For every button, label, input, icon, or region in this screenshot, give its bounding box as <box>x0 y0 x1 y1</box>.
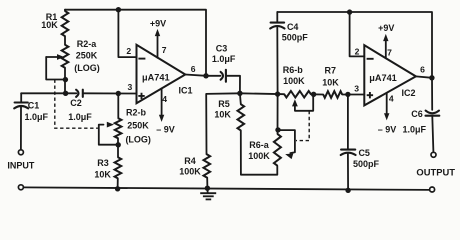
svg-text:500pF: 500pF <box>353 159 380 169</box>
svg-text:1.0μF: 1.0μF <box>25 112 49 122</box>
svg-text:– 9V: – 9V <box>156 124 175 134</box>
svg-text:10K: 10K <box>94 169 111 179</box>
svg-text:4: 4 <box>162 94 167 104</box>
svg-text:IC2: IC2 <box>401 88 415 98</box>
svg-text:C4: C4 <box>287 22 299 32</box>
svg-text:R6-a: R6-a <box>249 140 270 150</box>
svg-text:500pF: 500pF <box>282 32 309 42</box>
svg-text:1.0μF: 1.0μF <box>402 124 426 134</box>
svg-text:7: 7 <box>162 45 167 55</box>
svg-text:4: 4 <box>389 94 394 104</box>
svg-text:R6-b: R6-b <box>283 65 304 75</box>
svg-text:INPUT: INPUT <box>7 161 35 171</box>
svg-text:C6: C6 <box>411 109 423 119</box>
svg-text:OUTPUT: OUTPUT <box>416 166 455 177</box>
svg-text:100K: 100K <box>179 167 201 177</box>
svg-text:7: 7 <box>387 47 392 57</box>
svg-text:(LOG): (LOG) <box>125 134 151 144</box>
svg-text:R2-b: R2-b <box>126 108 147 118</box>
svg-text:6: 6 <box>191 64 196 74</box>
svg-text:R3: R3 <box>97 158 109 168</box>
svg-text:3: 3 <box>354 83 359 93</box>
svg-text:100K: 100K <box>248 151 270 161</box>
svg-text:3: 3 <box>128 82 133 92</box>
svg-text:250K: 250K <box>127 120 149 130</box>
svg-text:μA741: μA741 <box>142 72 170 82</box>
svg-text:6: 6 <box>420 64 425 74</box>
svg-text:100K: 100K <box>283 76 305 86</box>
svg-text:C3: C3 <box>216 44 228 54</box>
svg-text:+9V: +9V <box>150 18 166 28</box>
svg-text:1.0μF: 1.0μF <box>212 54 236 64</box>
svg-text:R4: R4 <box>184 156 196 166</box>
svg-text:10K: 10K <box>214 110 231 120</box>
svg-text:2: 2 <box>126 46 131 56</box>
svg-text:1.0μF: 1.0μF <box>68 112 92 122</box>
svg-text:(LOG): (LOG) <box>74 63 100 73</box>
svg-text:10K: 10K <box>41 20 58 30</box>
svg-text:R2-a: R2-a <box>77 39 98 49</box>
svg-text:2: 2 <box>355 46 360 56</box>
svg-text:R5: R5 <box>218 99 230 109</box>
svg-text:C2: C2 <box>70 98 82 108</box>
svg-text:– 9V: – 9V <box>378 124 397 134</box>
svg-text:C5: C5 <box>358 148 370 158</box>
svg-text:10K: 10K <box>322 77 339 87</box>
svg-text:C1: C1 <box>28 100 40 110</box>
svg-text:μA741: μA741 <box>369 73 397 83</box>
svg-text:250K: 250K <box>76 51 98 61</box>
svg-text:R7: R7 <box>325 65 337 75</box>
svg-text:IC1: IC1 <box>178 86 192 96</box>
svg-text:+9V: +9V <box>378 23 394 33</box>
